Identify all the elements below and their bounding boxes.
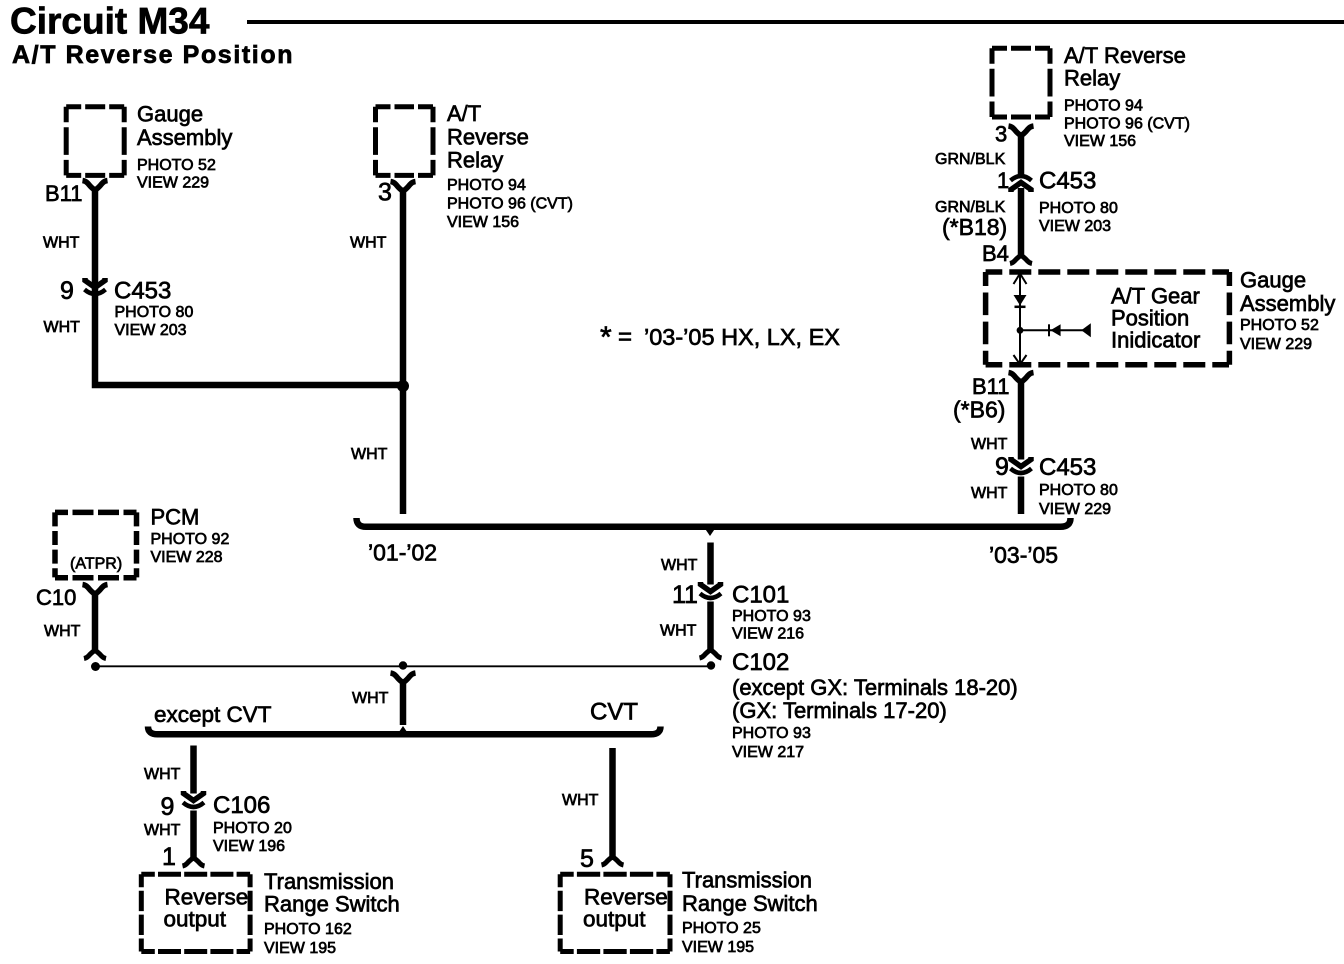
connector terminal into C102 bbox=[700, 650, 722, 658]
svg-text:VIEW 228: VIEW 228 bbox=[151, 549, 223, 566]
svg-text:A/T Reverse: A/T Reverse bbox=[1064, 43, 1186, 68]
component Reverse output (left) dashed box bbox=[141, 872, 250, 877]
junction node bbox=[397, 380, 409, 392]
arrowhead triangle 2 bbox=[1081, 323, 1091, 337]
svg-text:WHT: WHT bbox=[562, 792, 599, 809]
svg-text:’01-’02: ’01-’02 bbox=[368, 540, 437, 566]
title rule bbox=[247, 20, 1344, 24]
svg-text:C453: C453 bbox=[114, 278, 171, 305]
svg-text:PHOTO 162: PHOTO 162 bbox=[264, 921, 352, 938]
svg-text:PHOTO 93: PHOTO 93 bbox=[732, 725, 811, 742]
svg-text:CVT: CVT bbox=[590, 699, 638, 726]
svg-text:PHOTO 52: PHOTO 52 bbox=[137, 157, 216, 174]
arrow internal top bbox=[1014, 274, 1027, 285]
wire down to 03-05 bracket bbox=[1018, 477, 1025, 515]
connector terminal at relay right pin 3 bbox=[1009, 126, 1034, 136]
junction node inside indicator bbox=[1017, 327, 1024, 334]
wire internal indicator vertical line bbox=[1019, 273, 1021, 365]
wire WHT from C10 down to C102 line bbox=[92, 593, 99, 650]
component PCM dashed box bbox=[55, 510, 137, 516]
connector terminal at Gauge Assembly B11 bbox=[83, 181, 108, 191]
junction node C102 bbox=[707, 661, 715, 669]
svg-text:WHT: WHT bbox=[44, 319, 81, 336]
svg-text:3: 3 bbox=[378, 179, 392, 207]
svg-text:C102: C102 bbox=[732, 649, 789, 676]
svg-text:except CVT: except CVT bbox=[154, 702, 272, 727]
svg-text:*: * bbox=[600, 321, 612, 354]
svg-text:VIEW 229: VIEW 229 bbox=[1240, 336, 1312, 353]
arrowhead triangle 1 bbox=[1051, 324, 1061, 336]
svg-text:WHT: WHT bbox=[144, 766, 181, 783]
svg-text:VIEW 195: VIEW 195 bbox=[682, 939, 754, 956]
connector terminal at gauge B11 right bbox=[1009, 373, 1034, 383]
svg-text:Assembly: Assembly bbox=[137, 125, 232, 150]
svg-text:Transmission: Transmission bbox=[682, 868, 812, 893]
svg-text:’03-’05 HX, LX, EX: ’03-’05 HX, LX, EX bbox=[644, 324, 840, 350]
svg-text:VIEW 229: VIEW 229 bbox=[1039, 501, 1111, 518]
svg-text:(GX: Terminals 17-20): (GX: Terminals 17-20) bbox=[732, 698, 947, 723]
svg-text:9: 9 bbox=[161, 793, 175, 821]
svg-text:VIEW 229: VIEW 229 bbox=[137, 175, 209, 192]
component Gauge Assembly (left) dashed box bbox=[66, 104, 124, 109]
svg-text:PHOTO 80: PHOTO 80 bbox=[1039, 200, 1118, 217]
svg-text:(ATPR): (ATPR) bbox=[70, 556, 122, 573]
connector terminal into switch bbox=[602, 857, 624, 865]
svg-text:VIEW 196: VIEW 196 bbox=[213, 838, 285, 855]
wire internal horizontal line bbox=[1020, 329, 1090, 331]
wire GRN/BLK to gauge assembly bbox=[1018, 188, 1025, 255]
diode inside indicator bbox=[1014, 295, 1027, 306]
connector terminal into C102 line bbox=[84, 651, 106, 659]
connector terminal below bus junction bbox=[391, 673, 416, 683]
junction node bbox=[91, 662, 100, 671]
connector terminal into switch bbox=[183, 858, 205, 866]
svg-text:output: output bbox=[583, 907, 646, 932]
svg-text:GRN/BLK: GRN/BLK bbox=[935, 151, 1006, 168]
junction node on bus at center branch bbox=[399, 661, 407, 669]
wire bracket 01-02 / 03-05 bbox=[357, 518, 1071, 527]
svg-text:5: 5 bbox=[580, 845, 594, 873]
wire WHT from relay pin 3 down to junction and on to bracket bbox=[400, 190, 407, 514]
connector C453 (left) inline symbol bbox=[85, 278, 105, 288]
wire WHT down to CVT bracket bbox=[400, 682, 407, 725]
svg-text:C453: C453 bbox=[1039, 454, 1096, 481]
svg-text:PCM: PCM bbox=[151, 505, 200, 530]
svg-text:VIEW 216: VIEW 216 bbox=[732, 626, 804, 643]
wire WHT from bracket to switch (CVT) bbox=[609, 748, 616, 856]
svg-text:Range Switch: Range Switch bbox=[264, 892, 400, 917]
svg-text:A/T: A/T bbox=[447, 101, 481, 126]
svg-text:(except GX: Terminals 18-20): (except GX: Terminals 18-20) bbox=[732, 675, 1018, 700]
wire bracket except CVT / CVT bbox=[148, 727, 661, 735]
wire from C106 down to switch bbox=[190, 811, 197, 858]
arrow internal bottom bbox=[1014, 355, 1027, 364]
component A/T Reverse Relay (left) dashed box bbox=[376, 104, 434, 109]
component Reverse output (right) dashed box bbox=[560, 872, 670, 877]
svg-text:WHT: WHT bbox=[971, 485, 1008, 502]
svg-text:PHOTO 94: PHOTO 94 bbox=[1064, 98, 1143, 115]
wire GRN/BLK down to C453 bbox=[1018, 135, 1025, 175]
svg-text:WHT: WHT bbox=[661, 557, 698, 574]
svg-text:C106: C106 bbox=[213, 792, 270, 819]
svg-text:VIEW 203: VIEW 203 bbox=[1039, 218, 1111, 235]
svg-text:(*B18): (*B18) bbox=[942, 214, 1007, 240]
svg-text:PHOTO 92: PHOTO 92 bbox=[151, 531, 230, 548]
svg-text:VIEW 156: VIEW 156 bbox=[447, 214, 519, 231]
svg-text:Assembly: Assembly bbox=[1240, 291, 1335, 316]
svg-text:3: 3 bbox=[995, 122, 1007, 147]
connector C453 (right) inline symbol bbox=[1011, 183, 1031, 193]
svg-text:PHOTO 25: PHOTO 25 bbox=[682, 920, 761, 937]
svg-text:PHOTO 96 (CVT): PHOTO 96 (CVT) bbox=[1064, 116, 1190, 133]
svg-text:WHT: WHT bbox=[352, 690, 389, 707]
svg-text:=: = bbox=[618, 324, 632, 351]
svg-text:’03-’05: ’03-’05 bbox=[989, 542, 1058, 568]
tick on internal line bbox=[1048, 324, 1050, 336]
svg-text:VIEW 217: VIEW 217 bbox=[732, 744, 804, 761]
svg-text:PHOTO 96 (CVT): PHOTO 96 (CVT) bbox=[447, 196, 573, 213]
svg-text:B4: B4 bbox=[982, 241, 1009, 266]
connector C106 inline symbol bbox=[184, 791, 204, 801]
svg-text:Gauge: Gauge bbox=[1240, 268, 1306, 293]
junction notch on bracket bbox=[702, 524, 719, 537]
svg-text:Gauge: Gauge bbox=[137, 102, 203, 127]
wire thin C102 bus line bbox=[96, 665, 712, 667]
svg-text:VIEW 195: VIEW 195 bbox=[264, 940, 336, 957]
svg-text:WHT: WHT bbox=[44, 623, 81, 640]
svg-text:B11: B11 bbox=[45, 181, 83, 206]
wire WHT from B11 right down bbox=[1018, 381, 1025, 460]
svg-text:VIEW 156: VIEW 156 bbox=[1064, 133, 1136, 150]
connector terminal at PCM C10 bbox=[83, 585, 108, 595]
svg-text:Relay: Relay bbox=[447, 148, 503, 173]
svg-text:Circuit M34: Circuit M34 bbox=[10, 1, 210, 42]
svg-text:1: 1 bbox=[162, 843, 176, 871]
svg-text:WHT: WHT bbox=[660, 623, 697, 640]
svg-text:A/T Reverse Position: A/T Reverse Position bbox=[12, 41, 294, 69]
svg-text:PHOTO 93: PHOTO 93 bbox=[732, 608, 811, 625]
svg-text:WHT: WHT bbox=[43, 235, 80, 252]
svg-text:Range Switch: Range Switch bbox=[682, 891, 818, 916]
svg-text:Inidicator: Inidicator bbox=[1111, 328, 1200, 353]
svg-text:B11: B11 bbox=[972, 374, 1010, 399]
svg-text:C101: C101 bbox=[732, 582, 789, 609]
wire from C101 down to C102 bbox=[707, 602, 714, 651]
svg-text:PHOTO 94: PHOTO 94 bbox=[447, 177, 526, 194]
wire WHT from bracket to C106 bbox=[190, 746, 197, 794]
svg-text:PHOTO 80: PHOTO 80 bbox=[1039, 482, 1118, 499]
connector terminal into gauge assembly B4 bbox=[1010, 256, 1032, 264]
svg-text:WHT: WHT bbox=[144, 822, 181, 839]
svg-text:WHT: WHT bbox=[971, 436, 1008, 453]
connector C453 lower inline symbol bbox=[1011, 457, 1031, 467]
svg-text:VIEW 203: VIEW 203 bbox=[115, 322, 187, 339]
svg-text:PHOTO 52: PHOTO 52 bbox=[1240, 317, 1319, 334]
svg-text:Relay: Relay bbox=[1064, 66, 1120, 91]
svg-text:C10: C10 bbox=[36, 585, 76, 610]
connector C101 inline symbol bbox=[701, 582, 721, 592]
svg-text:PHOTO 20: PHOTO 20 bbox=[213, 820, 292, 837]
svg-text:9: 9 bbox=[995, 453, 1009, 481]
svg-text:WHT: WHT bbox=[351, 446, 388, 463]
svg-text:11: 11 bbox=[672, 581, 698, 609]
svg-text:output: output bbox=[164, 907, 227, 932]
svg-text:Transmission: Transmission bbox=[264, 869, 394, 894]
svg-text:9: 9 bbox=[60, 277, 74, 305]
component Gauge Assembly (right) dashed box bbox=[986, 269, 1230, 275]
wire WHT from bracket down to C101 bbox=[707, 543, 714, 585]
svg-text:Reverse: Reverse bbox=[447, 125, 529, 150]
svg-text:1: 1 bbox=[997, 168, 1009, 193]
junction notch on CVT bracket bbox=[396, 726, 411, 737]
connector terminal at relay pin 3 bbox=[391, 182, 416, 192]
wire WHT from B11 down and right to junction bbox=[95, 189, 403, 385]
svg-text:(*B6): (*B6) bbox=[953, 397, 1005, 423]
component A/T Reverse Relay (right) dashed box bbox=[992, 46, 1050, 51]
svg-text:PHOTO 80: PHOTO 80 bbox=[115, 304, 194, 321]
svg-text:C453: C453 bbox=[1039, 168, 1096, 195]
svg-text:WHT: WHT bbox=[350, 235, 387, 252]
